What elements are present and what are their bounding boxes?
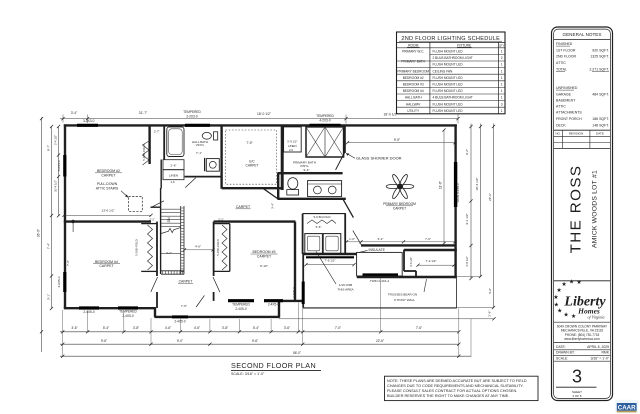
svg-text:TEMPERED: TEMPERED	[183, 110, 201, 114]
svg-text:FLUSH MOUNT LED: FLUSH MOUNT LED	[433, 76, 464, 80]
svg-text:2-4X5-0: 2-4X5-0	[235, 307, 247, 311]
svg-text:DATE:: DATE:	[556, 345, 566, 349]
wire: porch dip bottom wall	[154, 316, 279, 318]
svg-text:5-0 BI-FOLD: 5-0 BI-FOLD	[135, 239, 139, 255]
hall bath vanity	[206, 159, 219, 172]
svg-text:BEDROOM #2: BEDROOM #2	[97, 169, 120, 173]
2nd floor lighting schedule table	[397, 32, 506, 114]
svg-text:3'-8": 3'-8"	[133, 326, 139, 330]
svg-text:ATTIC: ATTIC	[556, 61, 566, 65]
svg-text:★: ★	[563, 312, 568, 319]
svg-text:6'-4": 6'-4"	[378, 237, 384, 241]
window 3-6X5-0 left wall upper	[63, 155, 66, 177]
svg-text:2-4X5-0: 2-4X5-0	[122, 314, 134, 318]
svg-text:CARPET: CARPET	[99, 264, 114, 268]
left dimension lines	[41, 118, 43, 353]
svg-text:148 SQFT.: 148 SQFT.	[592, 123, 609, 127]
svg-text:2,271 SQFT.: 2,271 SQFT.	[589, 68, 609, 72]
svg-text:2: 2	[501, 56, 503, 60]
svg-text:1: 1	[501, 63, 503, 67]
wire: right exterior wall	[454, 124, 456, 278]
svg-text:★: ★	[576, 279, 581, 286]
svg-text:22'-0": 22'-0"	[488, 193, 492, 201]
front door swing	[196, 295, 204, 307]
svg-text:2'-1": 2'-1"	[149, 217, 154, 221]
svg-text:★: ★	[571, 313, 576, 320]
bath door diagonal	[336, 153, 345, 170]
svg-text:NO.: NO.	[555, 131, 561, 135]
svg-text:CARPET: CARPET	[246, 163, 259, 167]
svg-text:FINISHED: FINISHED	[556, 42, 573, 46]
svg-text:1: 1	[501, 50, 503, 54]
svg-text:BEDROOM #4: BEDROOM #4	[95, 260, 118, 264]
svg-text:3/16" = 1'-0": 3/16" = 1'-0"	[591, 356, 610, 360]
svg-text:FLUSH MOUNT LED: FLUSH MOUNT LED	[433, 50, 464, 54]
wall: linen west	[160, 160, 162, 189]
svg-text:4'-6": 4'-6"	[195, 244, 201, 248]
svg-text:TEMPERED: TEMPERED	[232, 302, 250, 306]
wire: top exterior wall	[64, 124, 457, 126]
svg-text:9'-4": 9'-4"	[304, 168, 310, 172]
linen closet primary	[284, 127, 302, 152]
svg-text:7'-4": 7'-4"	[47, 243, 51, 249]
svg-text:31'-7": 31'-7"	[139, 111, 148, 115]
bedroom3 closet	[214, 223, 230, 225]
angled wall EC to hallway	[263, 188, 278, 198]
svg-text:11'-8": 11'-8"	[438, 181, 442, 189]
svg-text:RMK: RMK	[601, 351, 609, 355]
svg-text:10'-4 1/2": 10'-4 1/2"	[54, 180, 58, 192]
svg-text:7'-1": 7'-1"	[196, 151, 202, 155]
wall: stairs bottom stud wall	[161, 270, 184, 272]
svg-text:1: 1	[501, 89, 503, 93]
svg-text:7'-6 1/2": 7'-6 1/2"	[325, 259, 336, 263]
svg-text:TRUSSES BEAR ON: TRUSSES BEAR ON	[388, 292, 417, 296]
svg-text:4'-6": 4'-6"	[165, 326, 171, 330]
svg-text:2'-6": 2'-6"	[487, 311, 491, 317]
svg-text:18'-3 1/2": 18'-3 1/2"	[475, 177, 479, 190]
svg-text:4'-6": 4'-6"	[194, 326, 200, 330]
svg-text:TEMPERED: TEMPERED	[119, 309, 137, 313]
svg-text:QTY: QTY	[499, 44, 505, 48]
bedroom2 door diagonal	[151, 201, 164, 208]
svg-text:★: ★	[569, 278, 574, 285]
wall: utility south	[303, 253, 357, 255]
svg-text:7'-6": 7'-6"	[425, 237, 431, 241]
svg-text:FLUSH MOUNT LED: FLUSH MOUNT LED	[433, 63, 464, 67]
angled door to primary bedroom	[343, 199, 354, 218]
shower with tile X pattern	[306, 127, 344, 157]
dim 4ft0 hall	[185, 249, 214, 251]
door swing primary bedroom	[353, 231, 361, 245]
svg-text:7'-0": 7'-0"	[335, 326, 341, 330]
bifold door bedroom2 closet	[143, 141, 150, 165]
dryer box	[323, 234, 341, 254]
primary vanity double sink	[308, 181, 342, 197]
title block outer border	[552, 27, 613, 401]
svg-text:BUILDER RESERVES THE RIGHT TO: BUILDER RESERVES THE RIGHT TO MAKE CHANG…	[387, 394, 509, 398]
wall: bedroom3 west	[213, 222, 215, 276]
svg-text:SCALE:: SCALE:	[556, 356, 568, 360]
svg-text:2-4X5-0: 2-4X5-0	[83, 310, 95, 314]
wire: pony zone left wall	[302, 253, 304, 307]
svg-text:2'-7": 2'-7"	[154, 130, 160, 134]
window 2-4X5-0 bedroom3 right	[264, 299, 283, 302]
svg-text:9'-10": 9'-10"	[260, 264, 268, 268]
door swing bath hall	[185, 178, 196, 188]
svg-text:1325 SQFT.: 1325 SQFT.	[590, 55, 609, 59]
wall: bath south / vanity nook	[204, 158, 206, 171]
svg-text:4 BULB BATHROOM LIGHT: 4 BULB BATHROOM LIGHT	[433, 96, 473, 100]
wire: porch dip right step	[278, 300, 280, 317]
svg-text:3-2X3-0: 3-2X3-0	[83, 119, 95, 123]
svg-text:GARAGE: GARAGE	[556, 92, 572, 96]
wall: step band top	[404, 249, 457, 251]
wire: pony zone bottom edge	[303, 307, 457, 309]
svg-text:920 SQFT.: 920 SQFT.	[592, 48, 609, 52]
svg-text:THIS AREA: THIS AREA	[337, 288, 354, 292]
svg-text:BEDROOM #2: BEDROOM #2	[403, 76, 424, 80]
svg-text:9'-9": 9'-9"	[394, 138, 400, 142]
hall bath toilet	[202, 132, 211, 139]
window 3-0X5-0 pony left wall	[302, 282, 305, 305]
svg-text:BEDROOM #3: BEDROOM #3	[403, 83, 424, 87]
window twin 3-2X5-0 right wall	[454, 162, 457, 207]
svg-text:AMICK WOODS LOT #1: AMICK WOODS LOT #1	[592, 170, 599, 248]
svg-text:GENERAL NOTES: GENERAL NOTES	[563, 32, 602, 37]
utility closet 5-0 bifold	[303, 213, 346, 215]
svg-text:3'-9 1/2": 3'-9 1/2"	[287, 139, 297, 143]
svg-text:★: ★	[553, 294, 558, 301]
svg-text:1-6: 1-6	[170, 180, 174, 184]
svg-text:CAAR: CAAR	[618, 404, 636, 411]
wall: closet/bath divider	[163, 125, 165, 160]
wall: bedroom2 south	[64, 220, 151, 222]
wall: bedroom/bath divider	[343, 125, 345, 153]
svg-text:9'-6": 9'-6"	[101, 339, 107, 343]
E/C closet walls	[220, 125, 222, 189]
svg-text:1ST FLOOR: 1ST FLOOR	[556, 48, 576, 52]
svg-text:GLASS SHOWER DOOR: GLASS SHOWER DOOR	[356, 155, 402, 160]
svg-text:PRIMARY W.C.: PRIMARY W.C.	[402, 50, 424, 54]
svg-text:★: ★	[561, 281, 566, 288]
svg-text:3 OF 5: 3 OF 5	[572, 394, 582, 398]
bottom dim extension lines	[62, 310, 64, 357]
wire: porch dip left step	[154, 307, 156, 317]
svg-text:CARPET: CARPET	[236, 205, 251, 209]
wall: bath south	[277, 198, 345, 200]
wall: bedroom3 north	[214, 220, 296, 222]
top dimension line	[60, 118, 458, 120]
svg-text:3'-6": 3'-6"	[284, 326, 290, 330]
closet 2ft6	[163, 160, 184, 170]
svg-text:5'-4": 5'-4"	[253, 326, 259, 330]
window tempered 2-2X3-0 top-middle	[185, 124, 210, 127]
CAAR logo	[615, 400, 638, 413]
svg-text:PLEASE CONSULT SALES CONTRACT: PLEASE CONSULT SALES CONTRACT FOR ACTUAL…	[387, 389, 517, 393]
svg-text:9'-6": 9'-6"	[252, 339, 258, 343]
svg-text:5'-6": 5'-6"	[316, 225, 322, 229]
svg-text:3'-1": 3'-1"	[47, 294, 51, 300]
svg-text:3: 3	[572, 367, 582, 387]
svg-text:ATTACHMENTS: ATTACHMENTS	[556, 111, 582, 115]
window 2-4X5-0 porch dip	[172, 315, 188, 318]
svg-text:7'-6": 7'-6"	[181, 304, 187, 308]
svg-text:ATTIC STAIRS: ATTIC STAIRS	[96, 187, 119, 191]
stair landing line	[161, 253, 181, 255]
bedroom2 door pivot	[72, 220, 75, 223]
svg-text:1: 1	[501, 83, 503, 87]
right dimension lines	[470, 124, 472, 279]
svg-text:★: ★	[557, 308, 562, 315]
wire: pony wall (9ft pony wall)	[357, 276, 457, 278]
dim line 13ft6	[64, 214, 151, 216]
window tempered 2-4X5-0 bedroom4 right	[118, 306, 138, 309]
svg-text:18'-0 1/2": 18'-0 1/2"	[257, 112, 272, 116]
svg-text:3'-8 1/2": 3'-8 1/2"	[465, 256, 469, 267]
svg-text:UTILITY: UTILITY	[407, 109, 420, 113]
svg-text:CEILING FAN: CEILING FAN	[433, 69, 454, 73]
svg-text:1: 1	[501, 109, 503, 113]
svg-text:7'-6": 7'-6"	[66, 260, 70, 266]
wall: bedroom2 closet east	[148, 125, 150, 164]
svg-text:PRIMARY BEDROOM: PRIMARY BEDROOM	[383, 202, 416, 206]
svg-text:3-6X5-0: 3-6X5-0	[57, 160, 61, 171]
pony zone L-step walls	[403, 250, 405, 272]
wall: stairwell west	[160, 188, 162, 274]
svg-text:www.libertyhomesva.com: www.libertyhomesva.com	[564, 337, 600, 341]
svg-text:SECOND FLOOR PLAN: SECOND FLOOR PLAN	[231, 361, 316, 370]
svg-text:DRAWN BY:: DRAWN BY:	[556, 351, 575, 355]
svg-text:3'-4 1/2": 3'-4 1/2"	[54, 135, 58, 145]
svg-text:CARPET: CARPET	[393, 206, 406, 210]
svg-text:2-0: 2-0	[289, 148, 293, 152]
svg-text:of Virginia: of Virginia	[588, 315, 605, 320]
svg-text:BEDROOM #3: BEDROOM #3	[253, 250, 276, 254]
svg-text:13'-6 1/2": 13'-6 1/2"	[101, 208, 114, 212]
bedroom4 closet	[141, 223, 157, 225]
svg-text:DATE: DATE	[596, 131, 604, 135]
stair treads	[161, 209, 180, 227]
linen closet	[163, 170, 184, 180]
ceiling fan	[386, 173, 414, 199]
attic stairs dashed rect	[129, 197, 143, 212]
svg-text:CARPET: CARPET	[257, 255, 272, 259]
revision table	[554, 129, 611, 131]
svg-text:484 SQFT.: 484 SQFT.	[592, 92, 609, 96]
svg-text:VINYL: VINYL	[196, 143, 205, 147]
wire: bottom wall left section	[64, 307, 156, 309]
svg-text:FLUSH MOUNT LED: FLUSH MOUNT LED	[433, 83, 464, 87]
svg-text:TOTAL: TOTAL	[556, 68, 567, 72]
svg-text:3: 3	[501, 102, 503, 106]
svg-text:LINEN: LINEN	[169, 174, 178, 178]
svg-text:5-0 BI-FOLD: 5-0 BI-FOLD	[313, 215, 331, 219]
svg-text:2-4X5-0: 2-4X5-0	[268, 302, 280, 306]
wall: bedroom4 east	[156, 222, 158, 276]
svg-text:1: 1	[501, 96, 503, 100]
svg-text:1: 1	[501, 69, 503, 73]
window 2-4X5-0 bedroom4 left	[79, 306, 99, 309]
hall door swing left	[151, 277, 158, 292]
svg-text:★: ★	[556, 287, 561, 294]
insulated floor box	[357, 252, 403, 276]
svg-text:4'-6": 4'-6"	[488, 288, 492, 294]
svg-text:HALLWAY: HALLWAY	[406, 102, 422, 106]
svg-text:56'-0": 56'-0"	[293, 351, 301, 355]
svg-text:1'-0": 1'-0"	[349, 237, 355, 241]
svg-text:7'-9": 7'-9"	[246, 141, 252, 145]
window 3-6X5-0 left wall lower	[63, 272, 66, 292]
svg-text:THE ROSS: THE ROSS	[568, 165, 585, 254]
svg-text:CARPET: CARPET	[179, 280, 193, 284]
svg-text:FLUSH MOUNT LED: FLUSH MOUNT LED	[433, 109, 464, 113]
svg-text:1: 1	[501, 76, 503, 80]
svg-text:2-2X3-0: 2-2X3-0	[186, 114, 198, 118]
washer box	[305, 234, 323, 254]
svg-text:DN: DN	[167, 217, 171, 223]
svg-text:3'-8": 3'-8"	[222, 326, 228, 330]
window bar utility south	[306, 256, 354, 258]
svg-text:3'-4 1/2": 3'-4 1/2"	[409, 257, 413, 267]
svg-text:ATTIC: ATTIC	[556, 105, 566, 109]
svg-text:FLUSH MOUNT LED: FLUSH MOUNT LED	[433, 89, 464, 93]
wall: bath mid	[277, 172, 342, 174]
svg-text:5-0 BI-FOLD: 5-0 BI-FOLD	[142, 144, 146, 160]
svg-text:18'-0 1/2": 18'-0 1/2"	[384, 112, 399, 116]
bottom dimension rows	[279, 318, 494, 320]
svg-text:NOTE: THESE PLANS ARE DEEMED A: NOTE: THESE PLANS ARE DEEMED ACCURATE BU…	[387, 379, 527, 383]
svg-text:8'-7": 8'-7"	[47, 145, 51, 151]
dim 11ft8 inside bedroom	[443, 130, 445, 244]
svg-text:9'-2": 9'-2"	[465, 149, 469, 155]
wire: bottom wall bedroom3 section	[278, 300, 304, 302]
svg-text:1/16 OSB: 1/16 OSB	[339, 283, 352, 287]
svg-text:TEMPERED: TEMPERED	[316, 114, 334, 118]
hall door swing right	[213, 277, 220, 292]
svg-text:★: ★	[554, 301, 559, 308]
svg-text:3-6X5-0: 3-6X5-0	[57, 276, 61, 287]
wall: utility east	[344, 214, 346, 254]
svg-text:4-2X3-0: 4-2X3-0	[319, 119, 331, 123]
svg-text:CHANGES DUE TO CODE REQUIREMEN: CHANGES DUE TO CODE REQUIREMENTS AND MEC…	[387, 384, 524, 388]
stair break line	[161, 228, 181, 234]
svg-text:2-4X5-0: 2-4X5-0	[174, 320, 186, 324]
wall: bedroom3 east	[294, 222, 296, 301]
svg-text:7'-6": 7'-6"	[416, 326, 422, 330]
svg-text:3'-6": 3'-6"	[71, 326, 77, 330]
stairwell east stud wall	[180, 206, 182, 274]
svg-text:SCALE: 3/16" = 1'-0": SCALE: 3/16" = 1'-0"	[231, 372, 265, 376]
svg-text:INSULATE: INSULATE	[369, 248, 386, 252]
window 3-2X3-0 top-left	[77, 124, 98, 127]
svg-text:3'-4": 3'-4"	[271, 203, 275, 209]
wire: pony zone right edge	[455, 278, 457, 308]
wall: bath west	[277, 173, 279, 199]
wall: primary bedroom south	[361, 244, 456, 246]
svg-text:2ND FLOOR: 2ND FLOOR	[556, 55, 577, 59]
svg-text:9'-1 1/2": 9'-1 1/2"	[465, 213, 469, 224]
svg-text:186 SQFT.: 186 SQFT.	[592, 117, 609, 121]
svg-text:HALL BATH: HALL BATH	[405, 96, 423, 100]
svg-text:UNFINISHED: UNFINISHED	[556, 86, 578, 90]
svg-text:REVISION: REVISION	[569, 131, 583, 135]
svg-text:TWIN 3-2X5-0: TWIN 3-2X5-0	[456, 183, 460, 203]
svg-text:5-0 BI-FOLD: 5-0 BI-FOLD	[216, 239, 220, 255]
svg-text:DECK: DECK	[556, 123, 566, 127]
svg-text:APRIL 8, 2025: APRIL 8, 2025	[587, 345, 609, 349]
svg-text:PULL-DOWN: PULL-DOWN	[97, 182, 118, 186]
svg-text:5'-4": 5'-4"	[103, 326, 109, 330]
svg-text:9'-0": 9'-0"	[177, 339, 183, 343]
svg-text:2 BULB BATHROOM LIGHT: 2 BULB BATHROOM LIGHT	[433, 56, 473, 60]
svg-text:PRIMARY BATH: PRIMARY BATH	[401, 59, 425, 63]
wall: stair top	[151, 206, 161, 208]
svg-text:22'-6": 22'-6"	[376, 339, 384, 343]
svg-text:7'-2 1/2": 7'-2 1/2"	[426, 259, 437, 263]
svg-text:FLUSH MOUNT LED: FLUSH MOUNT LED	[433, 102, 464, 106]
wire: left exterior wall	[64, 124, 66, 308]
svg-text:3'-2": 3'-2"	[166, 251, 172, 255]
svg-text:PRIMARY BEDROOM: PRIMARY BEDROOM	[397, 69, 429, 73]
svg-text:36'-0": 36'-0"	[37, 228, 41, 237]
dim row above south wall	[347, 241, 456, 243]
dim 9ft9 inside bedroom	[348, 142, 456, 144]
svg-text:BEDROOM #4: BEDROOM #4	[403, 89, 424, 93]
svg-text:9' PONY WALL: 9' PONY WALL	[394, 298, 415, 302]
svg-text:TWIN 2-4X4-4: TWIN 2-4X4-4	[370, 279, 390, 283]
primary toilet	[288, 178, 298, 190]
window tempered 4-2X3-0 top shower	[310, 124, 341, 127]
svg-text:2'-1": 2'-1"	[218, 217, 223, 221]
svg-text:FRONT PORCH: FRONT PORCH	[556, 117, 582, 121]
svg-text:BASEMENT: BASEMENT	[556, 99, 576, 103]
svg-text:CARPET: CARPET	[101, 173, 116, 177]
window tempered 2-4X5-0 bedroom3 left	[228, 299, 254, 302]
hall bath tub	[167, 127, 184, 157]
svg-text:2'-6": 2'-6"	[170, 163, 176, 167]
note box	[385, 376, 539, 400]
svg-text:3'-4": 3'-4"	[71, 111, 78, 115]
wall: utility west	[302, 214, 304, 254]
